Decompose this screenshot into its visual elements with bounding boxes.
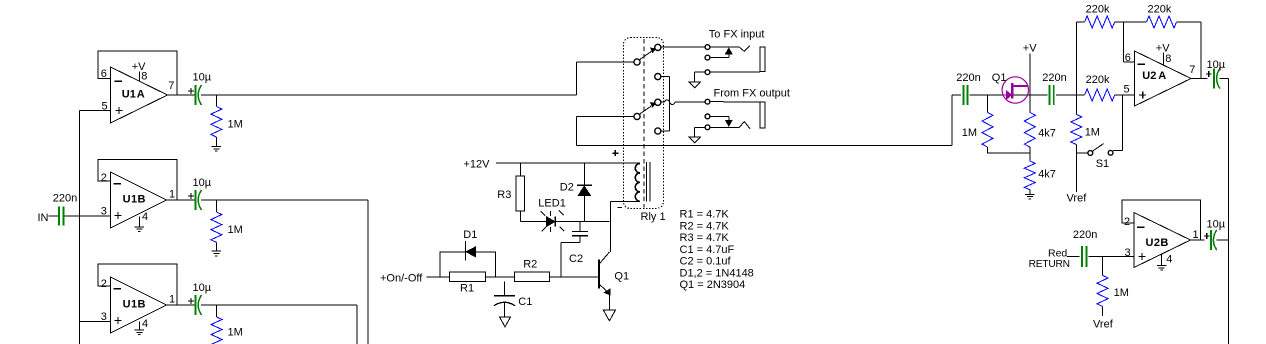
svg-text:RETURN: RETURN — [1029, 259, 1070, 270]
relay switch 2 — [634, 99, 661, 134]
wire sw2 common — [577, 117, 635, 146]
svg-text:Vref: Vref — [1067, 193, 1088, 205]
relay coil Rly1 — [611, 150, 650, 207]
resistor 220k input — [1076, 74, 1134, 101]
wire R1-R2 — [486, 276, 515, 278]
wire U1B1 feedback — [98, 159, 177, 200]
svg-text:10µ: 10µ — [1207, 59, 1226, 71]
svg-text:1M: 1M — [228, 327, 243, 339]
jack J1 ring switch — [705, 48, 732, 60]
capacitor 10u U2B out — [1204, 219, 1226, 251]
capacitor 220n U2B in — [1073, 229, 1097, 267]
wire U2A output — [1191, 78, 1208, 80]
svg-text:D2: D2 — [560, 182, 574, 194]
svg-text:3: 3 — [101, 206, 107, 218]
svg-text:Q1 = 2N3904: Q1 = 2N3904 — [680, 279, 746, 291]
svg-text:4: 4 — [142, 318, 148, 330]
svg-text:4: 4 — [1166, 254, 1172, 266]
wire IN to U1B pin3 — [64, 215, 110, 217]
svg-text:A: A — [137, 89, 145, 101]
wire U1B2 out to mix — [201, 305, 357, 344]
svg-text:R1: R1 — [460, 282, 474, 294]
svg-text:220k: 220k — [1086, 4, 1110, 16]
svg-text:220n: 220n — [1042, 72, 1066, 84]
svg-text:7: 7 — [168, 80, 174, 92]
svg-text:10µ: 10µ — [193, 282, 212, 294]
svg-text:10µ: 10µ — [193, 177, 212, 189]
relay armature link — [643, 39, 645, 208]
transistor Q1 2N3904 — [599, 252, 629, 310]
node +V JFET — [1023, 43, 1037, 113]
wire sw1 to FX send — [661, 46, 706, 48]
svg-text:4: 4 — [142, 211, 148, 223]
svg-text:1M: 1M — [228, 119, 243, 131]
diode LED1 — [520, 198, 609, 233]
ground U1B1 1M — [212, 251, 221, 256]
svg-text:U1B: U1B — [123, 193, 146, 205]
svg-text:R1 = 4.7K: R1 = 4.7K — [680, 209, 730, 221]
svg-text:R3 = 4.7K: R3 = 4.7K — [680, 232, 730, 244]
svg-text:1M: 1M — [1114, 287, 1129, 299]
relay Rly1 enclosure — [624, 38, 664, 209]
svg-text:R2 = 4.7K: R2 = 4.7K — [680, 220, 730, 232]
wire U2B feedback — [1122, 200, 1201, 240]
svg-text:Q1: Q1 — [614, 271, 629, 283]
ground U2B pin4 — [1157, 266, 1166, 271]
svg-text:U1B: U1B — [123, 299, 146, 311]
svg-text:1: 1 — [169, 189, 175, 201]
wire output column — [1220, 79, 1229, 344]
op-amp U1B first — [101, 172, 175, 228]
capacitor 10u U2A out — [1206, 59, 1226, 89]
resistor 1M U1A out — [211, 95, 243, 147]
svg-text:220k: 220k — [1148, 4, 1172, 16]
svg-text:C2 = 0.1uf: C2 = 0.1uf — [680, 256, 732, 268]
svg-text:C2: C2 — [569, 253, 583, 265]
diode D1 — [440, 229, 495, 277]
svg-text:1: 1 — [169, 294, 175, 306]
svg-text:+On/-Off: +On/-Off — [380, 272, 423, 284]
wire bus to 220n — [952, 95, 961, 146]
resistor R1 — [450, 272, 486, 294]
svg-text:1: 1 — [1193, 229, 1199, 241]
svg-text:1M: 1M — [962, 127, 977, 139]
svg-text:Rly 1: Rly 1 — [641, 211, 666, 223]
wire U1B2 pin3 — [80, 320, 111, 322]
diode D2 — [560, 163, 592, 222]
svg-text:D1: D1 — [463, 229, 477, 241]
svg-text:From FX output: From FX output — [714, 88, 790, 100]
svg-text:C1: C1 — [518, 296, 532, 308]
svg-text:A: A — [1158, 70, 1166, 82]
svg-text:8: 8 — [1165, 53, 1171, 65]
svg-text:4k7: 4k7 — [1038, 168, 1056, 180]
label Rly 1 — [641, 211, 666, 223]
op-amp U2B — [1124, 213, 1199, 268]
svg-text:+12V: +12V — [464, 159, 491, 171]
capacitor 10u U1B1 out — [188, 177, 212, 210]
wire U1B1 output — [167, 199, 196, 201]
op-amp U1A — [101, 61, 175, 123]
ground U1B first pin4 — [135, 227, 144, 232]
svg-text:Q1: Q1 — [992, 72, 1007, 84]
svg-text:+V: +V — [1023, 43, 1037, 55]
chassis ground C1 — [500, 317, 511, 327]
ground U1B second pin4 — [135, 330, 144, 335]
wire U1B2 output — [167, 304, 196, 306]
node +On/-Off — [380, 272, 450, 284]
capacitor 220n input — [53, 193, 77, 226]
svg-text:U1: U1 — [122, 89, 136, 101]
svg-text:S1: S1 — [1096, 158, 1109, 170]
op-amp U2A — [1124, 43, 1196, 107]
node +12V rail — [464, 159, 641, 171]
chassis ground J2 — [689, 137, 700, 143]
svg-text:220n: 220n — [956, 72, 980, 84]
svg-text:LED1: LED1 — [538, 198, 566, 210]
svg-text:U2: U2 — [1142, 70, 1156, 82]
wire U1A pin5 / input bus — [80, 111, 111, 344]
wire coil to collector — [610, 201, 612, 252]
label To FX input — [709, 29, 765, 41]
svg-text:8: 8 — [141, 71, 147, 83]
resistor 220k feedback 1 — [1076, 4, 1146, 29]
wire JFET row — [970, 94, 1077, 96]
wire S1 to pin5 — [1113, 95, 1123, 151]
svg-text:220k: 220k — [1086, 74, 1110, 86]
resistor 220k feedback 2 — [1147, 4, 1201, 79]
ground 4k7 — [1025, 194, 1034, 199]
wire U2B out join — [1216, 239, 1228, 241]
node IN — [38, 212, 59, 224]
svg-text:2: 2 — [101, 172, 107, 184]
relay switch 1 — [634, 44, 661, 79]
svg-text:2: 2 — [1124, 216, 1130, 228]
svg-text:Red: Red — [1048, 247, 1067, 259]
ground U1A 1M — [212, 147, 221, 152]
wire U1A out to relay — [201, 62, 634, 95]
svg-text:R3: R3 — [497, 189, 511, 201]
jack J2 ring switch — [705, 114, 732, 126]
jack J2 body — [760, 102, 765, 128]
svg-text:10µ: 10µ — [1207, 219, 1226, 231]
capacitor 220n JFET out — [1042, 72, 1066, 105]
capacitor 10u U1A out — [188, 72, 212, 106]
svg-text:U2B: U2B — [1146, 237, 1169, 249]
capacitor C2 — [561, 222, 588, 277]
wire U1B2 feedback — [98, 264, 177, 305]
svg-text:R2: R2 — [523, 258, 537, 270]
wire output bus — [577, 145, 952, 147]
capacitor 10u U1B2 out — [188, 282, 212, 315]
svg-text:1M: 1M — [1085, 126, 1100, 138]
svg-text:IN: IN — [38, 212, 49, 224]
wire U1B1 out to mix — [201, 200, 368, 344]
resistor 1M U1B1 out — [211, 200, 243, 251]
wire sw2 to FX return — [661, 100, 706, 105]
op-amp U1B second — [101, 277, 175, 333]
wire U2B pin3 — [1089, 256, 1134, 258]
label From FX output — [714, 88, 790, 100]
wire U2B output — [1191, 239, 1205, 241]
svg-text:10µ: 10µ — [193, 72, 212, 84]
transistor Q1 JFET — [992, 72, 1029, 103]
node Vref U2B — [1093, 319, 1114, 331]
svg-text:6: 6 — [1125, 52, 1131, 64]
svg-text:5: 5 — [1124, 84, 1130, 96]
wire U1A output — [168, 94, 196, 96]
svg-text:1M: 1M — [228, 224, 243, 236]
capacitor 220n bus — [956, 72, 980, 105]
svg-text:3: 3 — [1125, 247, 1131, 259]
jack J2 tip — [705, 99, 760, 104]
wire bypass link — [661, 77, 670, 131]
svg-text:Vref: Vref — [1093, 319, 1114, 331]
jack J1 tip — [705, 45, 750, 52]
capacitor C1 — [494, 281, 532, 317]
svg-text:C1 = 4.7uF: C1 = 4.7uF — [680, 244, 735, 256]
resistor 1M U2B bias — [1097, 257, 1129, 317]
jack J2 sleeve — [695, 122, 750, 137]
parts list — [680, 209, 754, 292]
jack J1 sleeve — [695, 70, 761, 82]
switch S1 — [1076, 144, 1113, 170]
svg-text:220n: 220n — [53, 193, 77, 205]
svg-text:2: 2 — [101, 278, 107, 290]
resistor R2 — [515, 258, 550, 281]
wire R2 to base — [550, 276, 599, 278]
resistor 4k7 upper — [1024, 112, 1056, 161]
wire feedback left column — [1075, 22, 1077, 114]
chassis ground J1 — [689, 82, 700, 88]
svg-text:220n: 220n — [1073, 229, 1097, 241]
node Red RETURN — [1029, 247, 1080, 270]
wire to U2A pin6 — [1124, 22, 1135, 62]
resistor 1M shunt — [962, 95, 1030, 153]
jack J1 body — [760, 47, 765, 72]
wire U1A feedback — [98, 51, 177, 95]
svg-text:D1,2 = 1N4148: D1,2 = 1N4148 — [680, 267, 754, 279]
resistor 1M Vref bias — [1071, 114, 1100, 192]
svg-text:7: 7 — [1189, 64, 1195, 76]
svg-text:4k7: 4k7 — [1038, 127, 1056, 139]
svg-text:To FX input: To FX input — [709, 29, 765, 41]
chassis ground Q1 — [603, 310, 615, 321]
resistor 4k7 lower — [1024, 161, 1056, 194]
node Vref S1 — [1067, 193, 1088, 205]
resistor R3 — [497, 163, 524, 222]
resistor 1M U1B2 out — [211, 305, 243, 344]
